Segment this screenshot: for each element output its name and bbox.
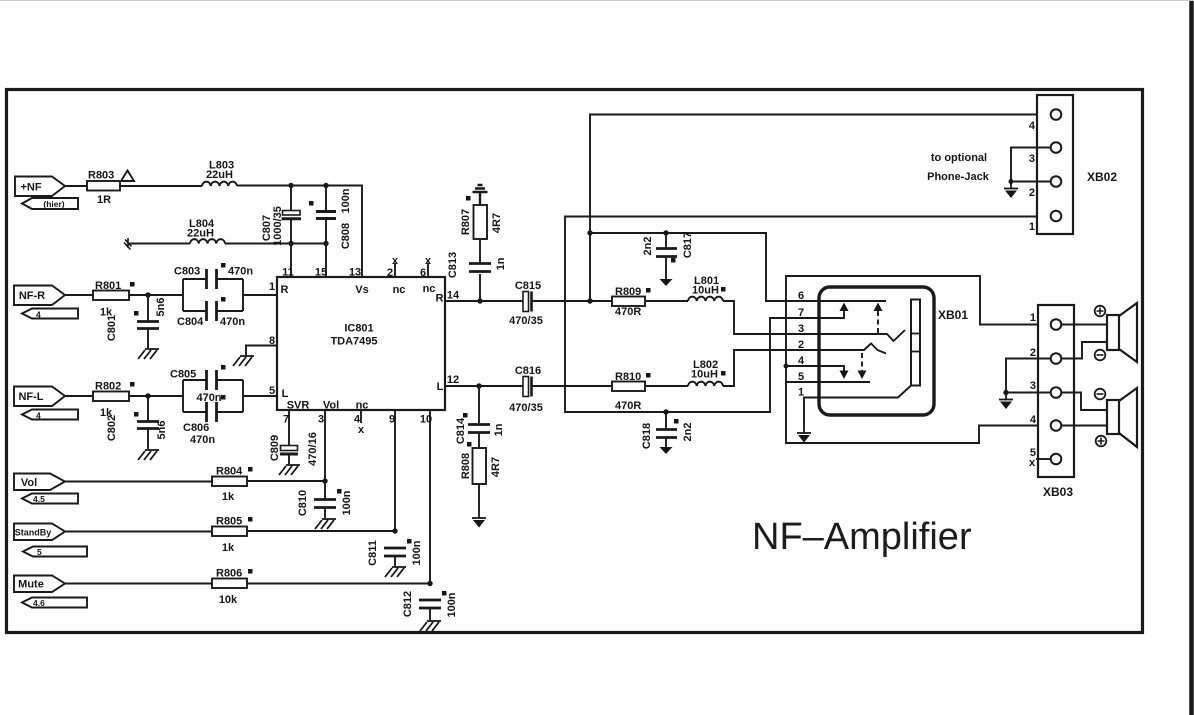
svg-text:8: 8: [269, 335, 275, 347]
svg-text:R802: R802: [95, 381, 121, 393]
wire L803 to pin13 corner (Vs rail): [237, 186, 362, 278]
wire R808 to ground: [478, 484, 480, 511]
svg-text:C805: C805: [170, 369, 196, 381]
svg-text:7: 7: [283, 414, 289, 426]
wire pin 3 Vol lead: [324, 410, 326, 481]
svg-text:XB02: XB02: [1087, 170, 1117, 184]
svg-text:22uH: 22uH: [187, 228, 214, 240]
svg-text:L: L: [282, 388, 289, 400]
wire pin 8 stub: [246, 346, 277, 356]
svg-text:4: 4: [36, 310, 41, 320]
wire riser to XB02 pin4 rail: [590, 115, 1050, 302]
tag (hier): [22, 198, 78, 209]
ground arrow at XB03 pin3: [999, 393, 1013, 410]
svg-text:C801: C801: [106, 315, 118, 341]
wire XB02 pin1 rail / left drop / bottom run / XB01 pin7: [565, 217, 1050, 413]
svg-text:nc: nc: [356, 400, 369, 412]
svg-text:1: 1: [798, 387, 804, 399]
wire XB01 shield loop to XB03 pin1 and pin4: [786, 276, 1050, 443]
wire C815 to R809: [532, 300, 613, 302]
inductor L803: [202, 182, 237, 186]
svg-text:R: R: [281, 284, 289, 296]
svg-text:470n: 470n: [228, 266, 253, 278]
wire Vol to R804: [65, 481, 212, 483]
wire C803 box to pin 1: [243, 294, 277, 296]
wire R801 to C803 box: [129, 294, 183, 296]
XB03 pin 5 stub nc: [1036, 458, 1051, 460]
XB03 pin 4 pad and wire to speaker: [1061, 425, 1107, 427]
svg-text:Mute: Mute: [18, 579, 44, 591]
svg-text:100n: 100n: [411, 540, 423, 565]
svg-text:Phone-Jack: Phone-Jack: [927, 171, 990, 183]
svg-text:10uH: 10uH: [691, 369, 718, 381]
wire XB01 pin5 tap: [786, 381, 820, 383]
svg-text:4: 4: [1029, 120, 1036, 132]
capacitor C805 / C806 parallel box: [183, 380, 243, 412]
svg-text:2: 2: [387, 267, 393, 279]
wire StandBy to R805: [65, 531, 212, 533]
svg-text:6: 6: [420, 267, 426, 279]
capacitor C815 electrolytic: [523, 292, 529, 312]
svg-text:4: 4: [1030, 414, 1037, 426]
connector tag Mute: [14, 576, 65, 593]
wire NF-R to R801: [65, 294, 93, 296]
svg-text:IC801: IC801: [344, 323, 373, 335]
svg-text:2: 2: [1030, 347, 1036, 359]
connector tag NF-R: [14, 286, 65, 306]
svg-text:3: 3: [1029, 153, 1035, 165]
capacitor C812: [419, 599, 441, 602]
XB02 pin 1 pad: [1051, 211, 1062, 222]
svg-text:4R7: 4R7: [491, 213, 503, 233]
connector tag Vol: [14, 474, 65, 491]
wire R804 to pin3 node: [247, 480, 325, 482]
jack internal pin3 switch contact: [820, 330, 905, 341]
wire pin 12 L output: [445, 385, 523, 387]
wire NF-L to R802: [65, 395, 93, 397]
svg-text:1: 1: [1029, 221, 1035, 233]
node junction pin10 / R806 / C812: [427, 581, 432, 586]
connector tag NF-L: [14, 387, 65, 407]
svg-text:5n6: 5n6: [156, 421, 168, 440]
wire ground to L804: [128, 243, 190, 245]
wire R810 to L802: [645, 385, 688, 387]
ground arrow below R808: [472, 511, 486, 528]
node junction riser / C817 rail: [587, 230, 592, 235]
svg-text:22uH: 22uH: [206, 169, 233, 181]
svg-text:XB03: XB03: [1043, 485, 1073, 499]
svg-text:3: 3: [318, 414, 324, 426]
svg-text:10k: 10k: [219, 594, 238, 606]
svg-text:Vol: Vol: [323, 400, 339, 412]
capacitor C810: [324, 481, 326, 499]
svg-text:470R: 470R: [615, 400, 641, 412]
node junction C818 tap: [663, 409, 668, 414]
XB03 pin 3 pad and wires: [1006, 392, 1051, 394]
op-amp IC801 TDA7495 body: [277, 277, 445, 410]
test point triangle at R803: [121, 171, 134, 182]
svg-text:100n: 100n: [446, 592, 458, 617]
capacitor C817: [665, 233, 667, 248]
jack internal pin6 contact line: [820, 300, 886, 302]
svg-text:to optional: to optional: [931, 152, 987, 164]
svg-text:470/35: 470/35: [509, 315, 543, 327]
svg-text:470R: 470R: [615, 306, 641, 318]
wire L804 to C808 bottom: [225, 243, 326, 245]
pin 2 nc stub: [394, 263, 396, 277]
wire C817 rail to XB01 pin6: [590, 233, 820, 301]
resistor R806: [212, 579, 247, 589]
svg-text:1: 1: [1030, 312, 1036, 324]
pin 6 nc stub: [427, 263, 429, 277]
svg-text:x: x: [392, 255, 399, 267]
node junction pin14 / C813: [477, 298, 482, 303]
wire +NF to R803: [65, 185, 87, 187]
resistor R808: [473, 448, 487, 484]
svg-text:C818: C818: [641, 423, 653, 449]
resistor R805: [212, 527, 247, 537]
svg-text:TDA7495: TDA7495: [330, 336, 377, 348]
svg-text:470n: 470n: [196, 392, 221, 404]
svg-text:10uH: 10uH: [692, 285, 719, 297]
wire pin 7 SVR lead: [288, 410, 290, 446]
inductor L801: [688, 297, 723, 301]
svg-text:C808: C808: [340, 223, 352, 249]
ground hatched below C812: [420, 621, 441, 631]
ground hatched below C810: [315, 519, 336, 529]
connector tag +NF: [15, 177, 65, 197]
wire XB01 pin4 tap: [786, 365, 820, 367]
svg-text:C804: C804: [177, 316, 204, 328]
svg-text:3: 3: [1030, 380, 1036, 392]
border frame of schematic sheet: [7, 90, 1143, 633]
node junction C817 tap: [663, 230, 668, 235]
XB03 pin 1 pad and wire to speaker: [1061, 324, 1107, 326]
XB03 pin 2 pad and wires: [1006, 359, 1051, 393]
ground hatched at pin 8: [233, 356, 254, 366]
svg-text:R805: R805: [216, 516, 242, 528]
ground tick left end of L804 rail: [124, 238, 132, 250]
resistor R801: [93, 291, 129, 301]
plus terminal symbol speaker 1: [1095, 306, 1106, 317]
wire XB01 pin1 to ground: [804, 398, 820, 427]
svg-text:x: x: [425, 255, 432, 267]
XB02 pin 3 pad and wire: [1011, 148, 1051, 182]
svg-text:C802: C802: [106, 415, 118, 441]
svg-text:11: 11: [282, 267, 294, 279]
wire pin 10 lead: [429, 410, 431, 584]
capacitor C813: [479, 274, 481, 301]
svg-text:Vs: Vs: [355, 284, 368, 296]
wire L802 to XB01 pin2: [723, 350, 820, 386]
wire pin 9 lead: [394, 410, 396, 531]
capacitor C811: [384, 547, 406, 550]
svg-text:470n: 470n: [190, 434, 215, 446]
svg-text:15: 15: [315, 267, 327, 279]
inductor L802: [688, 382, 723, 386]
supply symbol above R807: [473, 185, 488, 205]
svg-text:(hier): (hier): [43, 199, 64, 209]
jack internal pin5 contact line: [820, 381, 870, 383]
wire R803 to L803: [120, 185, 202, 187]
svg-text:14: 14: [447, 290, 460, 302]
ground hatched below C811: [385, 567, 406, 577]
svg-text:100n: 100n: [340, 188, 352, 213]
XB02 pin 4 pad: [1051, 109, 1062, 120]
capacitor C816 electrolytic: [523, 377, 529, 397]
tag 4.5 below Vol: [22, 494, 78, 504]
svg-text:C809: C809: [269, 435, 281, 461]
scan edge faint top line: [0, 0, 1194, 2]
capacitor C807 electrolytic: [290, 185, 292, 211]
svg-text:2n2: 2n2: [642, 237, 654, 256]
node junction C802 tap: [145, 393, 150, 398]
svg-text:C810: C810: [297, 490, 309, 516]
node junction L804 rail / C807 bottom: [288, 241, 293, 246]
node junction pin12 / C814: [476, 383, 481, 388]
svg-text:470/16: 470/16: [307, 432, 319, 466]
resistor R803: [87, 181, 120, 191]
jack internal pin4 line with solid down arrow: [820, 366, 844, 371]
wire pin 14 R output: [445, 300, 523, 302]
svg-text:7: 7: [798, 307, 804, 319]
svg-text:nc: nc: [423, 283, 436, 295]
wire L801 to XB01 pin3: [723, 301, 820, 334]
svg-text:4: 4: [798, 355, 805, 367]
wire R805 to pin9 node: [247, 530, 395, 532]
svg-text:4R7: 4R7: [490, 457, 502, 477]
jack dashed down arrow: [861, 353, 863, 371]
svg-text:+NF: +NF: [20, 182, 41, 194]
wire Mute to R806: [65, 583, 212, 585]
tag 4 below NF-L: [22, 410, 78, 420]
svg-text:1n: 1n: [493, 423, 505, 436]
svg-text:R804: R804: [216, 466, 243, 478]
node junction C801 tap: [145, 292, 150, 297]
node junction Vs rail / C807: [288, 183, 293, 188]
svg-text:4.6: 4.6: [33, 598, 45, 608]
svg-text:R: R: [436, 293, 444, 305]
svg-text:R809: R809: [615, 286, 641, 298]
node junction Vs rail / C808: [323, 183, 328, 188]
tag 4 below NF-R: [22, 309, 78, 319]
wire R809 to L801: [645, 300, 688, 302]
capacitor C818: [665, 412, 667, 429]
capacitor C803 / C804 parallel box: [183, 279, 243, 311]
svg-text:C815: C815: [515, 280, 541, 292]
resistor R810: [612, 382, 645, 392]
svg-text:C817: C817: [682, 232, 694, 258]
svg-text:1R: 1R: [97, 194, 111, 206]
jack internal pin1 sleeve line: [820, 386, 911, 398]
svg-text:1n: 1n: [495, 257, 507, 270]
svg-text:C803: C803: [174, 266, 200, 278]
svg-text:13: 13: [349, 267, 361, 279]
svg-text:x: x: [358, 424, 365, 436]
jack dashed up arrow: [877, 311, 879, 333]
svg-text:StandBy: StandBy: [15, 528, 52, 538]
resistor R804: [212, 477, 247, 487]
svg-text:100n: 100n: [341, 490, 353, 515]
resistor R802: [93, 392, 129, 402]
capacitor C801: [147, 295, 149, 321]
wire C805 box to pin 5: [243, 395, 277, 397]
svg-text:C814: C814: [455, 417, 467, 444]
svg-text:4.5: 4.5: [33, 494, 45, 504]
svg-text:nc: nc: [393, 284, 406, 296]
ground arrow at XB02 pin2: [1004, 182, 1018, 199]
minus terminal symbol speaker 1: [1095, 350, 1106, 361]
svg-text:12: 12: [447, 374, 459, 386]
ground hatched below C809: [279, 465, 300, 475]
svg-text:R810: R810: [615, 371, 641, 383]
svg-text:C812: C812: [402, 591, 414, 617]
svg-text:5n6: 5n6: [155, 298, 167, 317]
speaker LS right channel: [1107, 315, 1119, 350]
node junction R rail / XB02 riser: [587, 298, 592, 303]
svg-text:NF–Amplifier: NF–Amplifier: [752, 516, 972, 558]
capacitor C809 electrolytic: [281, 446, 298, 451]
minus terminal symbol speaker 2: [1095, 389, 1106, 400]
tag 4.6 below Mute: [22, 598, 87, 608]
svg-text:5: 5: [269, 385, 275, 397]
wire R806 to pin10 node: [247, 583, 430, 585]
svg-text:R806: R806: [216, 568, 242, 580]
svg-text:1: 1: [269, 281, 275, 293]
svg-text:10: 10: [420, 414, 432, 426]
svg-text:C816: C816: [515, 365, 541, 377]
svg-text:1000/35: 1000/35: [272, 206, 284, 246]
speaker LS left channel: [1107, 400, 1119, 434]
svg-text:R803: R803: [88, 170, 114, 182]
capacitor C814: [478, 386, 480, 424]
node junction XB03 pin2/pin3 ground: [1003, 390, 1008, 395]
svg-text:1k: 1k: [222, 542, 235, 554]
svg-text:5: 5: [798, 371, 804, 383]
svg-text:L: L: [437, 381, 444, 393]
scan edge bar right: [1189, 0, 1194, 715]
svg-text:R807: R807: [460, 209, 472, 235]
svg-text:C811: C811: [367, 540, 379, 566]
svg-text:4: 4: [36, 411, 41, 421]
jack plug bar: [911, 300, 920, 386]
svg-text:NF-L: NF-L: [18, 391, 43, 403]
svg-text:C813: C813: [447, 252, 459, 278]
wire R802 to C805 box: [129, 395, 183, 397]
svg-text:x: x: [1029, 457, 1036, 469]
ground hatched below C801: [138, 349, 159, 359]
connector XB02 body: [1037, 95, 1073, 234]
svg-text:SVR: SVR: [287, 400, 310, 412]
connector XB03 body: [1038, 305, 1074, 477]
svg-text:1k: 1k: [222, 491, 235, 503]
svg-text:R801: R801: [95, 280, 121, 292]
capacitor C802: [147, 396, 149, 421]
tag 5 below StandBy: [23, 547, 87, 557]
resistor R807: [474, 205, 488, 239]
svg-text:9: 9: [389, 414, 395, 426]
jack internal pin2 switch contact: [820, 344, 886, 354]
svg-text:C806: C806: [183, 422, 209, 434]
node junction pin3 / R804 / C810: [322, 478, 327, 483]
svg-text:470n: 470n: [220, 316, 245, 328]
svg-text:3: 3: [798, 323, 804, 335]
resistor R809: [612, 297, 645, 307]
svg-text:2: 2: [1029, 187, 1035, 199]
pin 4 nc stub: [360, 410, 362, 423]
svg-text:2: 2: [798, 339, 804, 351]
wire pin 11 lead: [290, 244, 292, 278]
wire pin 15 lead: [325, 244, 327, 278]
connector tag StandBy: [14, 524, 65, 541]
capacitor C808: [325, 185, 327, 211]
XB02 pin 2 pad and wire: [1011, 181, 1051, 183]
ground arrow XB01 pin1: [797, 426, 811, 443]
jack internal pin7 line with solid up arrow: [820, 311, 844, 318]
inductor L804: [190, 239, 225, 243]
node junction L804 rail / C808 bottom: [323, 241, 328, 246]
plus terminal symbol speaker 2: [1096, 436, 1107, 447]
svg-text:5: 5: [37, 547, 42, 557]
svg-text:XB01: XB01: [938, 308, 968, 322]
wire C816 to R810: [532, 385, 613, 387]
headphone jack XB01 outline: [819, 287, 934, 415]
svg-text:6: 6: [798, 290, 804, 302]
svg-text:2n2: 2n2: [682, 423, 694, 442]
svg-text:NF-R: NF-R: [19, 290, 45, 302]
ground hatched below C802: [138, 450, 159, 460]
svg-text:R808: R808: [460, 453, 472, 479]
svg-text:Vol: Vol: [21, 477, 37, 489]
node junction pin9 / R805 / C811: [392, 528, 397, 533]
svg-text:470/35: 470/35: [509, 402, 543, 414]
